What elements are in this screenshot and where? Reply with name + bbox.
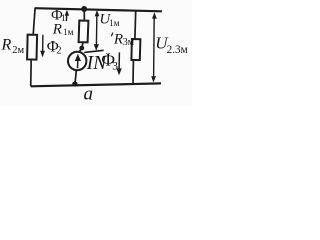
label Ф1 (51, 7, 66, 24)
svg-text:R: R (52, 21, 62, 37)
resistor R2м body (27, 35, 37, 60)
wire source bottom to rail (75, 70, 76, 84)
node a dot bottom rail (72, 81, 77, 86)
svg-text:2.3м: 2.3м (167, 44, 188, 56)
arrow Ф3 down (116, 52, 121, 75)
wire node to source top (79, 48, 82, 52)
svg-text:3: 3 (112, 61, 118, 73)
arrow Ф2 down (40, 35, 45, 57)
wire left branch upper (33, 8, 35, 35)
svg-text:1м: 1м (109, 18, 120, 28)
wire R3м branch upper (134, 11, 137, 40)
current source arrow (inside circle, up) (75, 54, 81, 69)
resistor R3м body (131, 39, 140, 60)
svg-text:2м: 2м (12, 45, 24, 56)
wire R3м branch lower (132, 60, 134, 84)
node tick under U1м arrow (84, 50, 103, 52)
stray tick before R3м (111, 33, 113, 37)
arrow U1м double-headed (94, 10, 100, 51)
svg-text:R: R (1, 36, 12, 53)
svg-text:R: R (113, 31, 123, 47)
wire left branch lower (30, 59, 33, 86)
svg-text:1м: 1м (63, 27, 74, 37)
label Ф2 (47, 38, 62, 56)
label R1м (52, 21, 74, 37)
wire R1м branch upper (83, 9, 85, 21)
arrow Ф1 up (65, 10, 69, 21)
node dot top rail (81, 6, 87, 12)
label U2.3м (155, 34, 187, 57)
wire top rail (35, 8, 162, 11)
label U1м (99, 12, 119, 28)
label Ф3 (101, 50, 118, 73)
label R2м (1, 36, 25, 56)
svg-text:2: 2 (56, 46, 61, 57)
svg-text:a: a (84, 84, 94, 105)
wire R1м bottom to node (82, 42, 83, 48)
svg-text:3м: 3м (123, 37, 135, 48)
wire bottom rail (31, 83, 161, 86)
node dot between R1м and source (79, 46, 84, 51)
arrow U2.3м double-headed (151, 12, 157, 82)
resistor R1м body (79, 21, 89, 43)
current source circle (68, 52, 86, 70)
label R3м (113, 31, 135, 48)
